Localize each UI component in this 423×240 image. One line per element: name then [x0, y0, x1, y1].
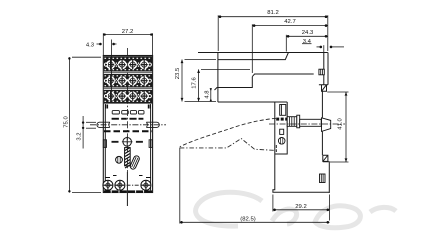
svg-text:75.0: 75.0	[64, 116, 70, 128]
svg-text:23.5: 23.5	[175, 67, 181, 79]
svg-text:3.2: 3.2	[77, 132, 83, 140]
svg-text:24.3: 24.3	[302, 30, 314, 36]
svg-text:81.2: 81.2	[267, 10, 278, 16]
svg-text:3.4: 3.4	[303, 39, 312, 45]
svg-text:17.6: 17.6	[192, 77, 198, 89]
svg-text:(82.5): (82.5)	[240, 216, 255, 222]
svg-text:4.8: 4.8	[204, 90, 210, 99]
svg-text:41.0: 41.0	[338, 118, 344, 130]
svg-text:4.3: 4.3	[86, 42, 95, 48]
svg-text:29.2: 29.2	[295, 204, 306, 210]
svg-text:27.2: 27.2	[122, 29, 133, 35]
svg-text:42.7: 42.7	[284, 19, 295, 25]
